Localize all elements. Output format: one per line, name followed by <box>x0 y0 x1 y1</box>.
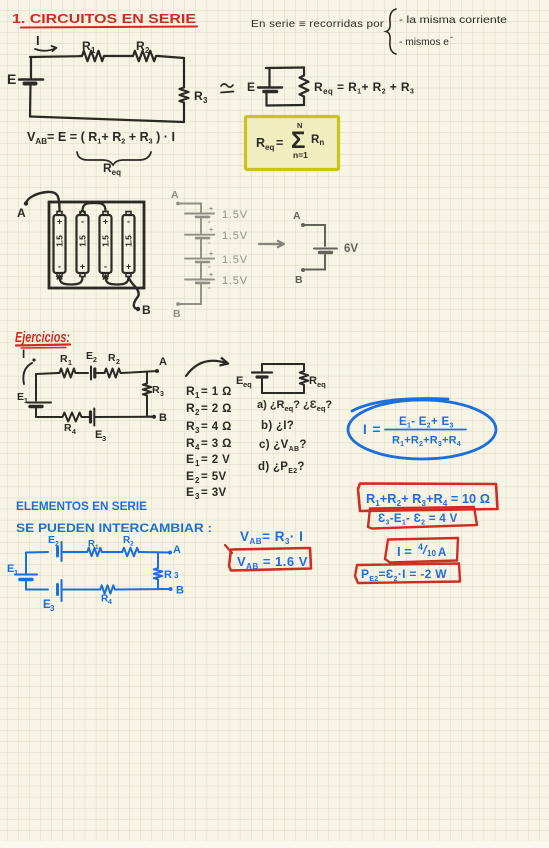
wire R4 to node B (circuit 3) <box>116 588 171 591</box>
node A (gray ladder) <box>171 189 180 205</box>
wire right upper (circuit 2) <box>146 373 148 383</box>
wire right lower (circuit 3) <box>157 581 159 590</box>
formula I = (E1-E2+E3)/(R1+R2+R3+R4) <box>363 416 466 448</box>
svg-text:B: B <box>295 274 303 286</box>
ellipse highlight (blue) <box>348 399 496 460</box>
gray battery 3 (1.5V) <box>185 251 248 271</box>
battery 6V <box>314 243 358 255</box>
svg-text:E: E <box>48 534 55 546</box>
svg-text:-: - <box>208 238 211 247</box>
svg-text:- mismos e: - mismos e <box>399 37 449 48</box>
svg-text:R: R <box>164 569 172 581</box>
svg-text:1.5: 1.5 <box>101 235 111 247</box>
wire top-left (circuit 2) <box>36 373 58 374</box>
svg-text:-: - <box>208 283 211 292</box>
wire left lower (circuit 1) <box>29 84 32 117</box>
wire bottom right to node B (circuit 2) <box>147 416 154 418</box>
svg-text:-: - <box>450 32 453 42</box>
svg-text:B: B <box>142 303 151 317</box>
svg-text:+: + <box>209 251 213 258</box>
wire top (equivalent circuit 2) <box>262 363 304 365</box>
svg-text:R: R <box>186 384 195 398</box>
wire R4-E3 (circuit 2) <box>83 416 90 418</box>
wire bottom (equivalent circuit 1) <box>267 104 305 107</box>
svg-text:2: 2 <box>130 541 134 548</box>
svg-text:1: 1 <box>14 568 18 577</box>
wire to terminal B (battery pack) <box>129 277 139 309</box>
svg-text:c) ¿VAB​?: c) ¿VAB​? <box>259 439 307 453</box>
svg-text:6V: 6V <box>344 243 358 255</box>
note: En serie = recorridas por <box>251 19 385 30</box>
result box E3-E1-E2 = 4V <box>368 507 477 529</box>
battery pack outer box <box>49 202 144 288</box>
wire top-right to node A (circuit 3) <box>140 551 170 554</box>
resistor R4 (circuit 2) <box>61 413 83 437</box>
svg-text:R: R <box>108 352 116 364</box>
svg-text:= 4 Ω: = 4 Ω <box>201 421 232 433</box>
svg-text:eq: eq <box>317 380 326 389</box>
curved arrow to equivalent <box>186 358 228 377</box>
gray battery 4 (1.5V) <box>185 272 248 292</box>
svg-text:I =: I = <box>363 422 381 437</box>
svg-text:I: I <box>36 33 40 48</box>
svg-text:= 5V: = 5V <box>201 471 227 483</box>
resistor R1 (circuit 2) <box>58 353 77 378</box>
svg-text:= 1 Ω: = 1 Ω <box>201 386 232 398</box>
wire R1-R2 (circuit 3) <box>103 551 121 553</box>
gray battery 2 (1.5V) <box>185 227 248 247</box>
svg-text:VAB​= E = ( R1​+ R2​ + R3​ ) ·: VAB​= E = ( R1​+ R2​ + R3​ ) · I <box>27 130 175 146</box>
battery Eeq (equivalent circuit 2) <box>252 373 272 378</box>
svg-text:= 2 V: = 2 V <box>201 454 230 466</box>
bridge wire cell2-cell3 tops <box>80 203 106 214</box>
formula VAB = R3*I <box>240 529 303 546</box>
svg-text:3: 3 <box>160 391 164 398</box>
wire E3-R4 (circuit 3) <box>62 589 100 591</box>
svg-text:R: R <box>64 422 72 434</box>
svg-text:E: E <box>86 350 93 362</box>
label Req = R1+R2+R3 <box>314 80 414 96</box>
question c) VAB? <box>259 439 307 453</box>
value label E2 =5V <box>186 469 227 485</box>
current arrow I (circuit 1) <box>35 33 57 51</box>
wire top-right to node A (circuit 2) <box>122 371 157 373</box>
svg-text:E: E <box>186 469 194 483</box>
gray battery 1 (1.5V) <box>185 206 248 226</box>
svg-text:4: 4 <box>195 443 200 452</box>
wire left upper (circuit 1) <box>30 57 32 78</box>
svg-text:4: 4 <box>418 542 423 552</box>
note: - la misma corriente <box>399 15 508 26</box>
svg-text:Ɛ3​-E1​- Ɛ2​ = 4 V: Ɛ3​-E1​- Ɛ2​ = 4 V <box>378 513 458 527</box>
node B (circuit 3) <box>169 585 185 597</box>
svg-text:1.5V: 1.5V <box>222 209 248 221</box>
node B (6V circuit) <box>295 268 305 286</box>
heading ELEMENTOS EN SERIE <box>16 499 147 513</box>
underbrace Req <box>77 152 151 177</box>
bridge wire cell3-cell4 bottoms <box>103 275 129 285</box>
svg-text:4: 4 <box>108 599 112 606</box>
svg-text:En serie ≡ recorridas por: En serie ≡ recorridas por <box>251 19 385 30</box>
svg-text:1.5: 1.5 <box>55 235 65 247</box>
resistor Req (equivalent circuit 2) <box>300 370 326 389</box>
formula VAB = E = (R1+R2+R3)·I <box>27 130 175 146</box>
svg-text:I =: I = <box>397 544 412 559</box>
svg-text:R: R <box>194 89 203 103</box>
svg-text:+: + <box>57 217 62 227</box>
wire E2-R2 (circuit 2) <box>95 372 103 374</box>
terminal B (battery pack) <box>136 303 151 317</box>
svg-text:R: R <box>60 353 68 365</box>
svg-text:B: B <box>159 412 167 424</box>
svg-text:R: R <box>186 419 195 433</box>
node A (circuit 2) <box>155 356 167 373</box>
highlight box (yellow) <box>246 117 339 170</box>
value label R2 =2Ω <box>186 401 232 417</box>
svg-text:4: 4 <box>72 429 76 436</box>
svg-text:E: E <box>7 71 16 87</box>
wire right lower (equivalent circuit 2) <box>303 386 305 393</box>
svg-text:E: E <box>186 452 194 466</box>
wire right lower (circuit 1) <box>183 104 185 122</box>
svg-text:= 3V: = 3V <box>201 487 227 499</box>
battery E3 (circuit 2) <box>91 409 107 444</box>
wire left lower (circuit 2) <box>35 407 37 417</box>
svg-text:E: E <box>17 391 24 403</box>
node B (gray ladder) <box>173 302 181 320</box>
wire right lower (equivalent circuit 1) <box>303 98 305 105</box>
wire top-right segment (circuit 1) <box>158 56 184 58</box>
svg-text:Ejercicios:: Ejercicios: <box>15 329 70 346</box>
question d) PE2? <box>258 461 305 475</box>
svg-text:-: - <box>81 217 84 227</box>
svg-text:10: 10 <box>427 549 436 558</box>
svg-text:+: + <box>209 227 213 234</box>
svg-text:-: - <box>58 262 61 272</box>
node A (6V circuit) <box>293 210 305 227</box>
battery E3 (circuit 3) <box>43 580 62 613</box>
battery cell 3 (1.5V) <box>100 212 112 277</box>
svg-text:3: 3 <box>174 571 179 580</box>
svg-text:n=1: n=1 <box>293 150 308 160</box>
resistor R2 (circuit 1) <box>131 39 158 61</box>
value label R3 =4Ω <box>186 419 232 435</box>
question a) Req? Eeq? <box>257 399 332 413</box>
battery E (equivalent circuit 1) <box>247 80 282 94</box>
svg-text:1.5V: 1.5V <box>222 254 248 266</box>
resistor R1 (circuit 3) <box>86 539 103 557</box>
wire between R1 and R2 (circuit 1) <box>106 55 131 57</box>
svg-text:eq: eq <box>243 380 252 389</box>
note: - mismos e- <box>399 32 453 48</box>
svg-text:2: 2 <box>116 359 120 366</box>
svg-text:3: 3 <box>102 434 106 443</box>
wire top-left segment (circuit 1) <box>30 55 80 58</box>
wire bottom (6V circuit) <box>305 254 325 270</box>
wire right lower (circuit 2) <box>146 397 148 417</box>
wire left upper (equivalent circuit 2) <box>261 364 263 371</box>
svg-text:B: B <box>173 308 181 320</box>
svg-text:+: + <box>209 206 213 213</box>
svg-text:N: N <box>297 121 302 130</box>
resistor R2 (circuit 2) <box>103 352 122 378</box>
arrow (becomes 6V) <box>259 241 284 248</box>
svg-text:1: 1 <box>68 360 72 367</box>
wire top (6V circuit) <box>305 225 325 246</box>
formula Req = sum Rn <box>256 121 324 160</box>
battery E2 (circuit 3) <box>48 534 62 561</box>
value label R4 =3Ω <box>186 436 232 452</box>
svg-text:R: R <box>309 375 317 387</box>
svg-text:A: A <box>173 544 181 556</box>
value label E1 =2V <box>186 452 230 468</box>
svg-text:R1​+R2​+ R3​+R4​ = 10 Ω: R1​+R2​+ R3​+R4​ = 10 Ω <box>366 492 490 508</box>
wire left lower (circuit 3) <box>25 580 27 590</box>
svg-text:-: - <box>208 262 211 271</box>
svg-text:I: I <box>22 349 25 361</box>
wire R1-E2 (circuit 2) <box>77 372 88 374</box>
resistor R4 (circuit 3) <box>99 585 116 606</box>
svg-text:3: 3 <box>203 96 208 105</box>
wire to node B (circuit 3) <box>158 588 171 590</box>
gray ladder wire 2 <box>200 239 202 258</box>
value label R1 =1Ω <box>186 384 232 400</box>
svg-text:R: R <box>152 384 160 396</box>
svg-text:3: 3 <box>195 426 200 435</box>
svg-text:1.5: 1.5 <box>78 235 88 247</box>
wire E2-R1 (circuit 3) <box>62 551 87 553</box>
battery cell 1 (1.5V) <box>54 212 66 277</box>
svg-text:-: - <box>208 217 211 226</box>
svg-text:2: 2 <box>195 408 200 417</box>
battery E2 (circuit 2) <box>86 350 97 380</box>
wire bottom-left (circuit 3) <box>26 589 48 591</box>
heading Ejercicios <box>15 329 70 348</box>
svg-text:1: 1 <box>195 391 200 400</box>
node B (circuit 2) <box>152 412 167 424</box>
svg-text:R: R <box>186 401 195 415</box>
resistor R3 (circuit 3) <box>154 567 179 581</box>
svg-text:+: + <box>103 217 108 227</box>
svg-text:A: A <box>293 210 301 222</box>
wire top-left (circuit 3) <box>26 551 48 554</box>
current label I (circuit 2) <box>22 349 36 384</box>
gray ladder wire 3 <box>200 263 202 279</box>
svg-text:A: A <box>171 189 179 201</box>
wire right upper (equivalent circuit 1) <box>303 68 305 75</box>
wire from A (gray ladder) <box>180 204 201 213</box>
equivalence symbol <box>221 84 234 93</box>
resistor Req (equivalent circuit 1) <box>300 74 309 98</box>
svg-text:- la misma corriente: - la misma corriente <box>399 15 508 26</box>
svg-text:B: B <box>176 585 184 597</box>
gray ladder wire 1 <box>200 218 202 234</box>
wire left upper (circuit 2) <box>35 374 37 401</box>
svg-text:= 2 Ω: = 2 Ω <box>201 403 232 415</box>
wire top (equivalent circuit 1) <box>266 66 304 69</box>
svg-text:1.5: 1.5 <box>124 235 134 247</box>
wire left lower (equivalent circuit 1) <box>265 93 267 106</box>
wire right upper (equivalent circuit 2) <box>303 364 305 370</box>
svg-text:-: - <box>104 262 107 272</box>
svg-text:ELEMENTOS EN SERIE: ELEMENTOS EN SERIE <box>16 499 147 513</box>
svg-text:R: R <box>186 436 195 450</box>
svg-text:+: + <box>126 262 131 272</box>
title: 1. CIRCUITOS EN SERIE <box>12 12 197 28</box>
wire bottom (circuit 1) <box>30 117 184 123</box>
wire left upper (equivalent circuit 1) <box>268 68 270 87</box>
wire bottom-left (circuit 2) <box>36 416 61 418</box>
resistor R3 (circuit 1) <box>180 86 209 105</box>
svg-text:E: E <box>186 485 194 499</box>
terminal A (battery pack) <box>17 201 28 220</box>
svg-text:d) ¿PE2​?: d) ¿PE2​? <box>258 461 305 475</box>
value label E3 =3V <box>186 485 227 501</box>
wire left lower (equivalent circuit 2) <box>261 378 263 394</box>
wire to terminal A (battery pack) <box>27 192 60 211</box>
svg-text:2: 2 <box>195 476 200 485</box>
svg-text:3: 3 <box>50 604 55 613</box>
question b) I? <box>261 420 294 432</box>
svg-text:E: E <box>247 80 255 94</box>
svg-text:+: + <box>80 262 85 272</box>
svg-text:1.5V: 1.5V <box>222 230 248 242</box>
resistor R2 (circuit 3) <box>121 535 140 556</box>
svg-text:A: A <box>17 206 26 220</box>
svg-text:2: 2 <box>93 357 97 364</box>
wire right upper (circuit 1) <box>183 58 185 86</box>
svg-text:3: 3 <box>195 492 200 501</box>
svg-text:A: A <box>438 547 446 559</box>
node A (circuit 3) <box>168 544 181 556</box>
result box I = 4/10 A <box>385 538 458 563</box>
resistor R1 (circuit 1) <box>80 39 106 61</box>
svg-text:1: 1 <box>195 459 200 468</box>
svg-text:SE PUEDEN INTERCAMBIAR :: SE PUEDEN INTERCAMBIAR : <box>16 521 212 535</box>
result box PE2 = E2*I = -2 W <box>355 564 460 584</box>
battery cell 4 (1.5V) <box>123 212 135 277</box>
svg-text:A: A <box>159 356 167 368</box>
svg-text:VAB​= R3​· I: VAB​= R3​· I <box>240 529 303 546</box>
svg-text:+: + <box>209 272 213 279</box>
svg-text:1.5V: 1.5V <box>222 275 248 287</box>
battery E (circuit 1) <box>7 71 43 87</box>
svg-text:-: - <box>127 217 130 227</box>
result box VAB = 1.6 V <box>225 545 311 571</box>
wire left upper (circuit 3) <box>25 553 27 575</box>
battery E1 (circuit 3) <box>7 563 37 580</box>
svg-text:=: = <box>276 136 283 150</box>
result box R1+R2+R3+R4 = 10 Ohm <box>358 484 498 512</box>
battery cell 2 (1.5V) <box>77 212 89 277</box>
bridge wire cell1-cell2 bottoms <box>57 275 83 285</box>
label Eeq (equivalent circuit 2) <box>236 375 252 389</box>
svg-text:= 3 Ω: = 3 Ω <box>201 438 232 450</box>
wire E3 to node B (circuit 2) <box>95 416 155 418</box>
wire right upper (circuit 3) <box>157 553 159 568</box>
resistor R3 (circuit 2) <box>143 382 164 398</box>
note brace { <box>386 9 396 54</box>
svg-text:b) ¿I?: b) ¿I? <box>261 420 294 432</box>
wire to B (gray ladder) <box>180 284 201 304</box>
battery E1 (circuit 2) <box>17 391 51 407</box>
svg-text:1. CIRCUITOS EN SERIE: 1. CIRCUITOS EN SERIE <box>12 12 196 26</box>
heading SE PUEDEN INTERCAMBIAR: <box>16 521 212 535</box>
wire bottom (equivalent circuit 2) <box>262 392 304 394</box>
